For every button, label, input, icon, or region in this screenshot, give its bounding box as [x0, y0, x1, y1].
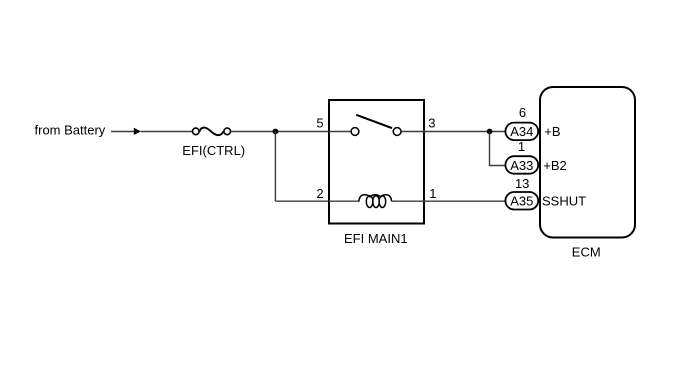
connector A34	[505, 123, 538, 141]
svg-text:ECM: ECM	[572, 244, 601, 259]
svg-text:A35: A35	[510, 194, 533, 209]
svg-text:A33: A33	[510, 158, 533, 173]
wire from arrow to fuse	[141, 131, 192, 133]
fuse EFI(CTRL) right terminal circle	[224, 128, 231, 135]
junction dot at battery branch	[273, 129, 279, 135]
connector A33	[505, 156, 538, 174]
relay box EFI MAIN1	[329, 100, 424, 224]
svg-text:EFI MAIN1: EFI MAIN1	[344, 231, 408, 246]
svg-text:6: 6	[519, 105, 526, 120]
wire relay internal to switch left contact	[329, 131, 351, 133]
connector A35	[505, 192, 538, 210]
svg-text:5: 5	[316, 116, 323, 131]
wire arrow lead from battery	[111, 131, 134, 133]
svg-text:2: 2	[316, 186, 323, 201]
svg-text:+B2: +B2	[543, 158, 567, 173]
wire switch right contact to relay edge	[401, 131, 424, 133]
wire fuse to relay pin 5	[231, 131, 330, 133]
svg-text:1: 1	[518, 139, 525, 154]
wire branch to relay pin 2	[275, 200, 329, 202]
svg-text:EFI(CTRL): EFI(CTRL)	[182, 143, 245, 158]
svg-text:3: 3	[428, 116, 435, 131]
svg-text:SSHUT: SSHUT	[542, 194, 586, 209]
switch right contact circle	[393, 128, 401, 136]
fuse EFI(CTRL) wavy element	[200, 128, 224, 136]
wire relay pin 1 to ECM A35	[424, 200, 505, 202]
wire branch down to A33	[490, 132, 505, 166]
wire relay internal coil lead left	[329, 200, 359, 202]
wire relay pin 3 to ECM A34	[424, 131, 505, 133]
ECM box	[540, 87, 635, 238]
wire branch down from junction	[274, 132, 276, 202]
svg-text:1: 1	[429, 186, 436, 201]
svg-text:13: 13	[515, 176, 529, 191]
svg-text:+B: +B	[544, 124, 560, 139]
relay coil loops	[359, 195, 392, 208]
switch left contact circle	[351, 128, 359, 136]
wire arrowhead	[134, 128, 141, 135]
svg-text:from Battery: from Battery	[35, 122, 106, 137]
switch lever	[356, 115, 392, 128]
junction dot before A34	[487, 129, 493, 135]
svg-text:A34: A34	[510, 124, 533, 139]
fuse EFI(CTRL) left terminal circle	[193, 128, 200, 135]
wire relay internal coil lead right	[392, 200, 424, 202]
